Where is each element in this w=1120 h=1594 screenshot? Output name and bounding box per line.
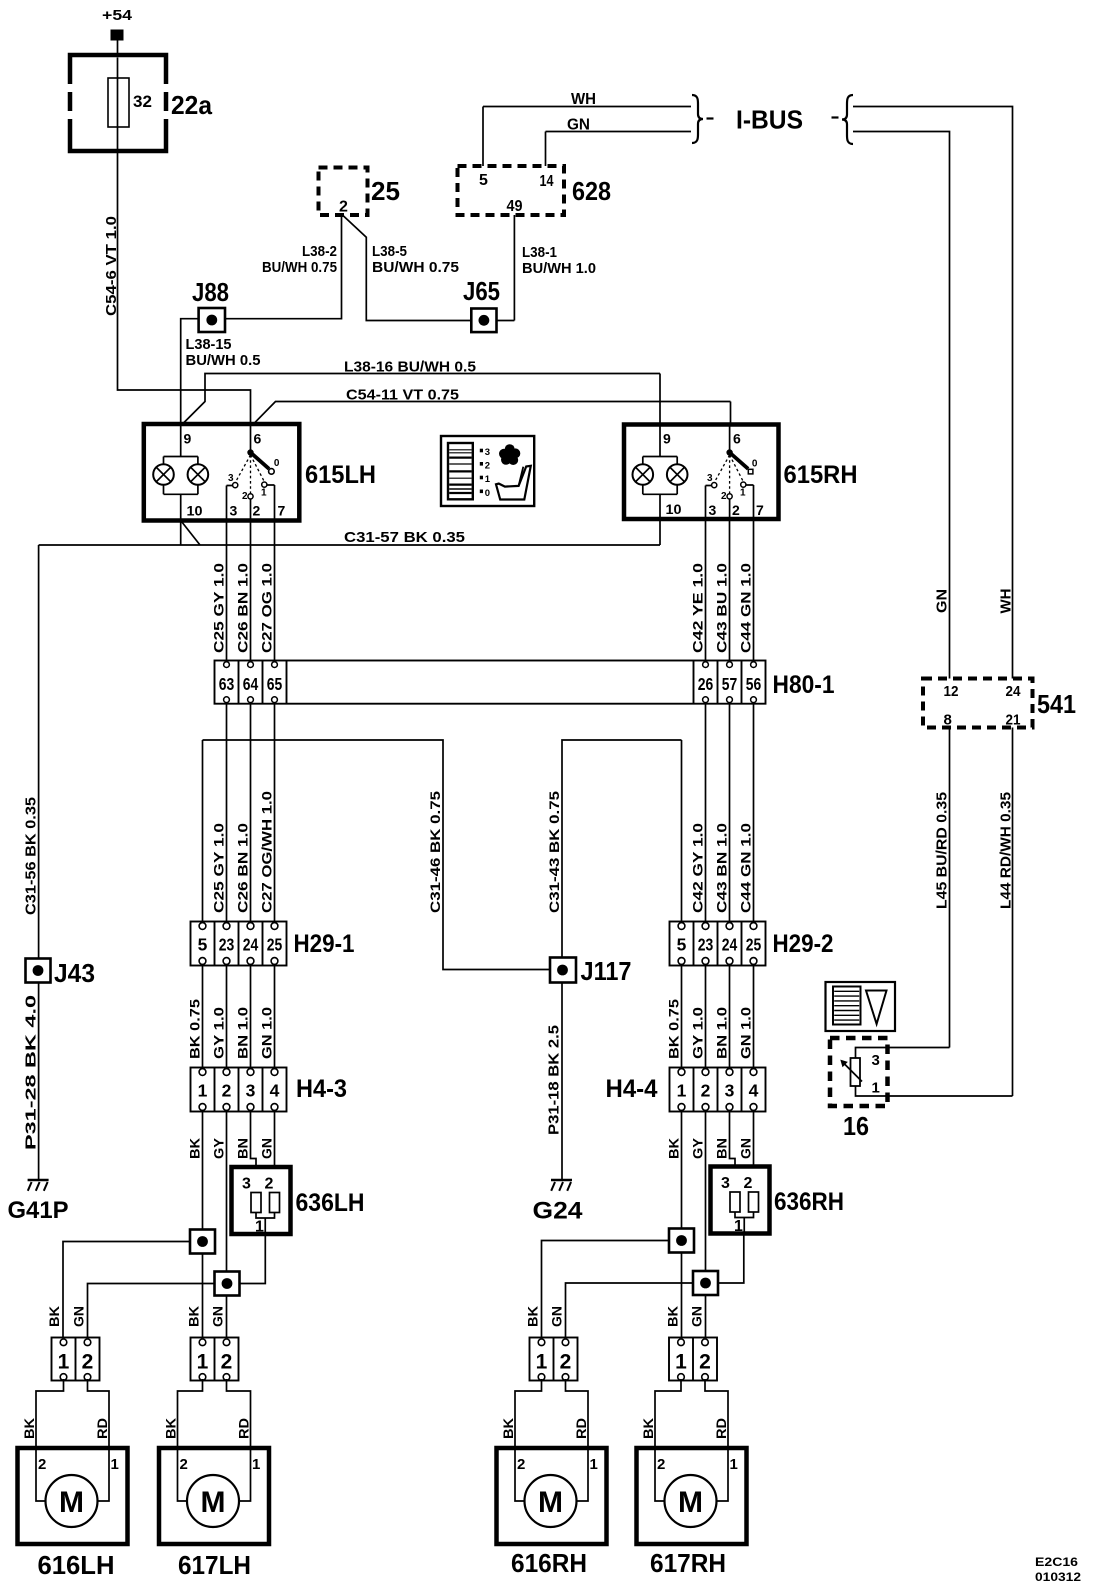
svg-text:P31-28 BK 4.0: P31-28 BK 4.0 [23, 995, 40, 1150]
svg-text:21: 21 [1006, 712, 1021, 729]
svg-text:2: 2 [701, 1081, 711, 1101]
svg-text:2: 2 [221, 1351, 233, 1374]
svg-text:3: 3 [707, 473, 713, 484]
svg-text:23: 23 [219, 935, 235, 955]
svg-text:GY 1.0: GY 1.0 [210, 1007, 226, 1059]
svg-text:GN: GN [737, 1138, 753, 1159]
svg-text:2: 2 [242, 491, 248, 502]
svg-text:541: 541 [1037, 689, 1076, 719]
svg-text:16: 16 [843, 1111, 869, 1141]
svg-text:2: 2 [732, 502, 740, 518]
svg-text:M: M [201, 1486, 226, 1519]
svg-text:2: 2 [699, 1351, 711, 1374]
svg-text:5: 5 [677, 935, 687, 955]
svg-text:1: 1 [872, 1080, 880, 1097]
svg-text:BK: BK [21, 1418, 37, 1439]
svg-text:57: 57 [722, 674, 738, 694]
svg-text:7: 7 [756, 502, 764, 518]
svg-text:BK: BK [186, 1138, 202, 1159]
svg-text:32: 32 [133, 92, 152, 111]
svg-text:BU/WH 0.75: BU/WH 0.75 [262, 259, 337, 276]
svg-text:C31-43 BK 0.75: C31-43 BK 0.75 [546, 791, 562, 913]
svg-text:616RH: 616RH [511, 1548, 587, 1578]
svg-text:C31-57 BK 0.35: C31-57 BK 0.35 [344, 529, 465, 546]
svg-text:C42 GY 1.0: C42 GY 1.0 [689, 823, 705, 913]
svg-text:65: 65 [267, 674, 283, 694]
svg-text:C27 OG/WH 1.0: C27 OG/WH 1.0 [258, 791, 274, 913]
svg-text:J65: J65 [463, 276, 500, 306]
svg-text:C44 GN 1.0: C44 GN 1.0 [737, 563, 753, 653]
svg-text:3: 3 [872, 1052, 880, 1069]
svg-text:GY: GY [210, 1137, 226, 1159]
svg-text:H29-1: H29-1 [294, 930, 355, 958]
svg-text:24: 24 [1006, 683, 1022, 700]
svg-text:GN: GN [689, 1306, 705, 1327]
svg-text:L38-5: L38-5 [372, 243, 407, 260]
svg-text:64: 64 [243, 674, 259, 694]
svg-text:616LH: 616LH [38, 1550, 115, 1580]
svg-text:J117: J117 [581, 956, 632, 986]
svg-text:3: 3 [725, 1081, 735, 1101]
svg-text:2: 2 [517, 1456, 525, 1473]
svg-text:0: 0 [485, 488, 490, 499]
svg-text:636RH: 636RH [774, 1188, 844, 1216]
svg-text:H4-4: H4-4 [606, 1075, 658, 1103]
svg-text:BK: BK [163, 1418, 179, 1439]
svg-text:2: 2 [560, 1351, 572, 1374]
svg-text:617RH: 617RH [650, 1548, 726, 1578]
svg-text:WH: WH [998, 589, 1015, 614]
svg-text:3: 3 [709, 502, 717, 518]
svg-text:1: 1 [58, 1351, 70, 1374]
svg-text:1: 1 [675, 1351, 687, 1374]
svg-text:3: 3 [230, 503, 238, 519]
svg-text:C44 GN 1.0: C44 GN 1.0 [737, 823, 753, 913]
svg-text:56: 56 [746, 674, 762, 694]
svg-text:5: 5 [198, 935, 208, 955]
svg-text:M: M [59, 1486, 84, 1519]
svg-text:H29-2: H29-2 [773, 930, 834, 958]
svg-text:BK: BK [500, 1418, 516, 1439]
svg-text:C31-46 BK 0.75: C31-46 BK 0.75 [427, 791, 443, 913]
svg-text:RD: RD [236, 1418, 252, 1439]
svg-text:10: 10 [666, 501, 682, 517]
svg-text:L45 BU/RD 0.35: L45 BU/RD 0.35 [934, 792, 951, 909]
svg-text:2: 2 [180, 1456, 188, 1473]
svg-text:G24: G24 [533, 1198, 584, 1225]
svg-text:E2C16: E2C16 [1035, 1555, 1078, 1569]
svg-text:1: 1 [198, 1081, 208, 1101]
svg-text:C43 BN 1.0: C43 BN 1.0 [713, 823, 729, 913]
svg-text:L44 RD/WH 0.35: L44 RD/WH 0.35 [998, 792, 1015, 909]
svg-text:1: 1 [730, 1456, 738, 1473]
svg-text:C25 GY 1.0: C25 GY 1.0 [210, 823, 226, 913]
svg-text:1: 1 [677, 1081, 687, 1101]
svg-text:3: 3 [242, 1176, 251, 1193]
svg-text:636LH: 636LH [296, 1189, 365, 1217]
svg-text:RD: RD [94, 1418, 110, 1439]
svg-text:2: 2 [82, 1351, 94, 1374]
svg-text:615LH: 615LH [305, 461, 376, 489]
svg-text:GY: GY [689, 1137, 705, 1159]
svg-text:BN: BN [234, 1138, 250, 1159]
svg-text:BN: BN [713, 1138, 729, 1159]
svg-text:5: 5 [479, 172, 488, 189]
svg-text:25: 25 [371, 176, 400, 206]
svg-text:3: 3 [228, 473, 234, 484]
svg-text:BN 1.0: BN 1.0 [234, 1007, 250, 1059]
svg-text:C43 BU 1.0: C43 BU 1.0 [713, 563, 729, 653]
svg-text:2: 2 [339, 199, 348, 216]
svg-text:C25 GY 1.0: C25 GY 1.0 [210, 563, 226, 653]
svg-text:C31-56 BK 0.35: C31-56 BK 0.35 [23, 797, 40, 915]
svg-text:1: 1 [740, 488, 746, 499]
svg-text:24: 24 [243, 935, 259, 955]
svg-text:C54-6 VT 1.0: C54-6 VT 1.0 [103, 216, 120, 316]
svg-text:1: 1 [734, 1218, 743, 1235]
svg-text:G41P: G41P [8, 1197, 69, 1224]
svg-text:RD: RD [713, 1418, 729, 1439]
svg-text:BN 1.0: BN 1.0 [713, 1007, 729, 1059]
svg-text:63: 63 [219, 674, 235, 694]
svg-text:4: 4 [270, 1081, 280, 1101]
svg-text:GN: GN [71, 1306, 87, 1327]
svg-text:9: 9 [184, 431, 192, 447]
svg-text:617LH: 617LH [178, 1550, 251, 1580]
svg-text:GN: GN [210, 1306, 226, 1327]
svg-text:BU/WH 0.5: BU/WH 0.5 [186, 352, 261, 369]
svg-text:C26 BN 1.0: C26 BN 1.0 [234, 823, 250, 913]
svg-text:1: 1 [590, 1456, 598, 1473]
svg-text:23: 23 [698, 935, 714, 955]
svg-text:12: 12 [944, 683, 959, 700]
svg-text:GN 1.0: GN 1.0 [258, 1007, 274, 1059]
svg-text:6: 6 [733, 431, 741, 447]
svg-text:GN: GN [549, 1306, 565, 1327]
svg-text:2: 2 [253, 503, 261, 519]
svg-text:25: 25 [267, 935, 283, 955]
svg-text:GN: GN [258, 1138, 274, 1159]
svg-text:P31-18 BK 2.5: P31-18 BK 2.5 [546, 1025, 563, 1135]
svg-text:628: 628 [572, 176, 611, 206]
svg-text:2: 2 [485, 460, 490, 471]
svg-text:2: 2 [744, 1175, 753, 1192]
svg-text:C26 BN 1.0: C26 BN 1.0 [234, 563, 250, 653]
svg-text:GY 1.0: GY 1.0 [689, 1007, 705, 1059]
svg-text:GN 1.0: GN 1.0 [737, 1007, 753, 1059]
svg-text:2: 2 [222, 1081, 232, 1101]
svg-text:1: 1 [252, 1456, 260, 1473]
svg-text:2: 2 [657, 1456, 665, 1473]
svg-text:2: 2 [38, 1456, 46, 1473]
svg-text:BK: BK [665, 1306, 681, 1327]
svg-text:3: 3 [246, 1081, 256, 1101]
svg-text:BK: BK [665, 1138, 681, 1159]
svg-text:25: 25 [746, 935, 762, 955]
svg-text:8: 8 [944, 712, 952, 729]
svg-text:1: 1 [261, 488, 267, 499]
svg-text:RD: RD [573, 1418, 589, 1439]
svg-text:1: 1 [255, 1219, 264, 1236]
svg-text:BU/WH 1.0: BU/WH 1.0 [522, 260, 596, 277]
svg-text:GN: GN [567, 117, 590, 134]
svg-text:M: M [678, 1486, 703, 1519]
svg-text:L38-1: L38-1 [522, 244, 557, 261]
svg-text:1: 1 [111, 1456, 119, 1473]
svg-text:7: 7 [278, 503, 286, 519]
svg-text:+54: +54 [102, 7, 133, 24]
svg-text:BK 0.75: BK 0.75 [186, 999, 202, 1059]
svg-text:C27 OG 1.0: C27 OG 1.0 [258, 563, 274, 653]
svg-text:I-BUS: I-BUS [736, 105, 803, 135]
svg-text:26: 26 [698, 674, 714, 694]
svg-text:1: 1 [197, 1351, 209, 1374]
svg-text:4: 4 [749, 1081, 759, 1101]
svg-text:9: 9 [663, 431, 671, 447]
svg-text:H80-1: H80-1 [773, 671, 835, 699]
svg-text:1: 1 [485, 474, 491, 485]
svg-text:J43: J43 [54, 958, 95, 988]
svg-text:1: 1 [536, 1351, 548, 1374]
svg-text:6: 6 [254, 431, 262, 447]
svg-text:BK 0.75: BK 0.75 [665, 999, 681, 1059]
svg-text:BK: BK [186, 1306, 202, 1327]
svg-text:GN: GN [934, 589, 951, 613]
svg-text:H4-3: H4-3 [296, 1075, 347, 1103]
svg-text:L38-2: L38-2 [302, 243, 337, 260]
svg-text:2: 2 [265, 1176, 274, 1193]
svg-text:615RH: 615RH [784, 461, 858, 489]
svg-text:22a: 22a [171, 90, 213, 120]
svg-text:24: 24 [722, 935, 738, 955]
svg-text:BK: BK [640, 1418, 656, 1439]
svg-text:0: 0 [752, 459, 758, 470]
svg-text:3: 3 [721, 1175, 730, 1192]
svg-text:J88: J88 [192, 277, 229, 307]
svg-text:14: 14 [540, 173, 554, 190]
svg-text:BK: BK [46, 1306, 62, 1327]
svg-text:BK: BK [525, 1306, 541, 1327]
svg-text:49: 49 [507, 198, 523, 215]
svg-text:C42 YE 1.0: C42 YE 1.0 [689, 563, 705, 653]
svg-text:010312: 010312 [1035, 1570, 1081, 1584]
svg-text:BU/WH 0.75: BU/WH 0.75 [372, 259, 459, 276]
svg-text:3: 3 [485, 447, 490, 458]
svg-text:L38-15: L38-15 [186, 336, 232, 353]
svg-text:0: 0 [274, 458, 280, 469]
svg-text:M: M [538, 1486, 563, 1519]
svg-text:2: 2 [721, 491, 727, 502]
svg-text:WH: WH [571, 91, 596, 108]
svg-text:10: 10 [187, 503, 203, 519]
